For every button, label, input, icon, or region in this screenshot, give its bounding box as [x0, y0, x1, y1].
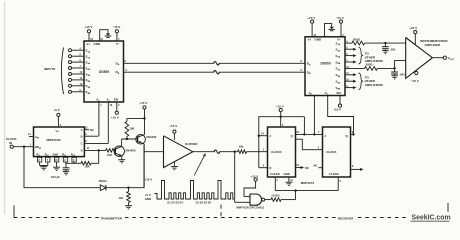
- svg-text:RECEIVER: RECEIVER: [338, 216, 354, 220]
- svg-text:V+: V+: [56, 129, 60, 133]
- svg-text:V+: V+: [308, 37, 312, 41]
- svg-text:+15 V: +15 V: [139, 101, 147, 105]
- svg-text:NC: NC: [314, 164, 318, 168]
- svg-text:EN: EN: [114, 98, 118, 102]
- svg-text:CLOCK: CLOCK: [326, 150, 337, 154]
- svg-text:IN: IN: [9, 141, 12, 145]
- svg-text:+15 V: +15 V: [85, 25, 93, 29]
- svg-text:NC: NC: [90, 128, 94, 132]
- svg-text:D: D: [81, 149, 83, 153]
- svg-text:+15 V: +15 V: [145, 178, 153, 182]
- svg-text:+15 V: +15 V: [333, 108, 341, 112]
- svg-text:BUFFER: BUFFER: [185, 142, 198, 146]
- svg-text:DG509: DG509: [99, 70, 109, 74]
- svg-text:100 pF: 100 pF: [51, 175, 60, 179]
- svg-text:GND: GND: [284, 172, 290, 176]
- svg-text:EN: EN: [337, 91, 341, 95]
- svg-text:B: B: [81, 134, 83, 138]
- svg-text:2N4400: 2N4400: [126, 148, 137, 152]
- svg-text:GND: GND: [53, 153, 59, 156]
- svg-text:S1 S2 S3 S4: S1 S2 S3 S4: [196, 200, 212, 204]
- svg-text:AMPLIFIERS: AMPLIFIERS: [365, 83, 383, 87]
- svg-text:10k: 10k: [239, 145, 244, 149]
- svg-text:NC: NC: [305, 166, 309, 170]
- svg-text:GND: GND: [315, 37, 323, 41]
- svg-text:INPUTS: INPUTS: [44, 67, 55, 71]
- svg-text:+15 V: +15 V: [250, 174, 258, 178]
- svg-text:+15 V: +15 V: [169, 124, 177, 128]
- svg-text:10K: 10K: [129, 126, 134, 130]
- svg-text:GND: GND: [94, 42, 102, 46]
- svg-text:.001: .001: [399, 72, 405, 76]
- svg-text:−15 V: −15 V: [336, 16, 344, 20]
- svg-text:A: A: [81, 128, 83, 132]
- svg-text:GND: GND: [145, 197, 151, 201]
- svg-text:CLEAR: CLEAR: [329, 172, 339, 176]
- svg-text:300Ω: 300Ω: [366, 63, 374, 67]
- svg-text:S1 S2 S3 S4: S1 S2 S3 S4: [167, 200, 183, 204]
- svg-text:300Ω: 300Ω: [353, 37, 361, 41]
- svg-text:10K: 10K: [107, 153, 112, 157]
- svg-text:2N4402: 2N4402: [146, 135, 157, 139]
- svg-text:V−: V−: [337, 37, 341, 41]
- svg-text:V+: V+: [87, 42, 91, 46]
- svg-text:10 KΩ: 10 KΩ: [271, 194, 280, 198]
- svg-text:MM74C73: MM74C73: [301, 181, 315, 185]
- svg-text:SeekIC.com: SeekIC.com: [412, 215, 451, 222]
- svg-text:+15 V: +15 V: [409, 26, 417, 30]
- svg-text:C: C: [81, 142, 83, 146]
- svg-text:MM74C00 OR CD4011: MM74C00 OR CD4011: [237, 206, 265, 210]
- svg-text:1N914: 1N914: [99, 179, 108, 183]
- svg-text:MM74C90: MM74C90: [47, 138, 62, 142]
- svg-text:+15 V: +15 V: [111, 115, 119, 119]
- svg-text:.001: .001: [390, 47, 396, 51]
- svg-text:V−: V−: [116, 42, 120, 46]
- svg-text:10k: 10k: [119, 196, 124, 200]
- svg-text:−15 V: −15 V: [411, 79, 419, 83]
- svg-text:10K: 10K: [85, 165, 90, 169]
- svg-text:AMPLIFIER: AMPLIFIER: [425, 43, 441, 47]
- svg-text:−15 V: −15 V: [113, 25, 121, 29]
- svg-text:CLOCK: CLOCK: [271, 150, 282, 154]
- svg-text:CLEAR: CLEAR: [270, 172, 280, 176]
- svg-text:+15 V: +15 V: [307, 16, 315, 20]
- svg-text:DG509: DG509: [321, 62, 331, 66]
- svg-text:+5 V: +5 V: [54, 108, 60, 112]
- svg-text:+15 V: +15 V: [276, 105, 284, 109]
- svg-text:TRANSMITTER: TRANSMITTER: [101, 216, 123, 220]
